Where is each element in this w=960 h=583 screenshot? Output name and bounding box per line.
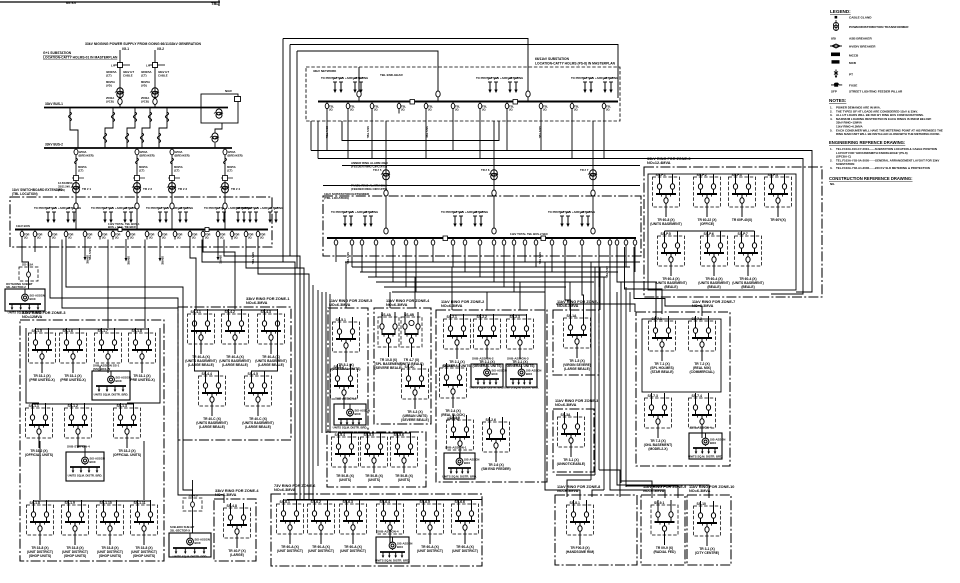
wire — [414, 277, 416, 308]
feeder drop — [414, 238, 418, 247]
legend item MCB — [832, 60, 857, 65]
svg-text:TR # 6: TR # 6 — [481, 168, 490, 172]
svg-text:POWER/DISTRIBUTION TRANSFORMER: POWER/DISTRIBUTION TRANSFORMER — [849, 25, 909, 29]
svg-text:66/11kV SUBSTATION: 66/11kV SUBSTATION — [535, 57, 570, 61]
wire — [62, 240, 178, 309]
svg-text:CABLE: CABLE — [158, 74, 168, 78]
svg-text:(LARGE BEALE): (LARGE BEALE) — [258, 363, 284, 367]
RMU cell SS-1.11 — [131, 500, 158, 558]
feeder drop — [334, 238, 338, 247]
svg-text:SS-4.5: SS-4.5 — [248, 372, 258, 376]
feeder drop — [539, 102, 548, 114]
substation box SUB-ASSIGN-4 — [375, 530, 412, 564]
svg-text:(LARGE BEALE): (LARGE BEALE) — [245, 425, 271, 429]
RMU cell SS-5.4 — [332, 432, 359, 482]
svg-text:(FEEDER RING CIRCUITS): (FEEDER RING CIRCUITS) — [351, 187, 387, 191]
66kV incoming line — [0, 0, 220, 6]
wire — [506, 114, 508, 151]
feeder drop — [624, 238, 628, 247]
svg-text:11kV TOTAL TBL BUS-2 SEC: 11kV TOTAL TBL BUS-2 SEC — [510, 232, 548, 236]
svg-text:TBL: TBL — [211, 1, 219, 6]
zone-3R inner ring box — [648, 174, 796, 290]
feeder drop — [580, 238, 584, 247]
feeder drop — [492, 238, 496, 247]
RMU cell SS-2.3 — [505, 314, 534, 368]
wire — [564, 247, 566, 277]
RMU cell SS-4B — [399, 312, 423, 366]
wire — [297, 51, 438, 90]
wire — [318, 159, 803, 295]
feeder drop — [216, 230, 225, 240]
svg-text:1250A: 1250A — [79, 150, 87, 154]
svg-text:SS-1.1: SS-1.1 — [29, 404, 39, 408]
svg-text:SS-5.1: SS-5.1 — [336, 318, 346, 322]
ring cluster 11kV RING FOR ZONE-8 — [555, 485, 637, 565]
RMU cell SS-2.5 — [447, 415, 474, 460]
wire — [519, 282, 521, 310]
svg-text:800/5A: 800/5A — [139, 165, 148, 169]
wire — [144, 240, 146, 329]
wire — [556, 474, 595, 476]
svg-text:SS-1.9: SS-1.9 — [65, 501, 75, 505]
svg-text:o/o: o/o — [831, 37, 836, 41]
svg-text:33kV TBL: 33kV TBL — [346, 252, 350, 265]
svg-text:(LARGE): (LARGE) — [230, 553, 244, 557]
feeder drop — [325, 102, 334, 114]
svg-text:(X): (X) — [374, 108, 378, 112]
wire — [452, 247, 454, 267]
RMU cell SS-2.6 — [481, 417, 510, 471]
wire — [252, 310, 278, 376]
wire — [317, 290, 319, 466]
svg-text:NO=6.3MVA: NO=6.3MVA — [386, 303, 408, 307]
wire — [335, 247, 337, 262]
svg-text:UNITS SQ.M. DISTR. BRD.: UNITS SQ.M. DISTR. BRD. — [504, 386, 539, 390]
wire — [107, 240, 109, 329]
wire — [582, 247, 584, 313]
legend item CABLE GLAND — [835, 16, 873, 20]
legend item PT — [834, 70, 853, 79]
feeder drop — [633, 238, 637, 247]
svg-text:3.: 3. — [830, 166, 833, 170]
ring cluster 11kV RING FOR ZONE-7 — [636, 300, 735, 466]
transformer — [132, 183, 141, 193]
svg-text:(X): (X) — [102, 236, 106, 240]
svg-text:(SHOP UNITS): (SHOP UNITS) — [29, 554, 51, 558]
earthing transformer 2 — [215, 123, 222, 148]
wire — [425, 114, 427, 159]
svg-text:(SEVERE BEALE): (SEVERE BEALE) — [401, 418, 429, 422]
svg-text:(X): (X) — [52, 236, 56, 240]
incomer breaker — [75, 196, 77, 229]
svg-text:(BEALE): (BEALE) — [707, 285, 720, 289]
wire — [603, 114, 605, 159]
substation box — [5, 289, 45, 315]
svg-text:SS-3A: SS-3A — [561, 413, 572, 417]
RMU cell SS-1.10 — [97, 500, 124, 558]
svg-text:33kV TBL: 33kV TBL — [538, 252, 542, 265]
svg-text:SUB-STATION-4: SUB-STATION-4 — [67, 445, 90, 449]
svg-text:(HANDSOME RIM): (HANDSOME RIM) — [566, 550, 594, 554]
transformer feeder TR#2 — [133, 148, 155, 196]
feeder drop — [173, 230, 182, 240]
RMU cell SS-1A — [563, 313, 591, 371]
wire — [503, 247, 505, 287]
wire — [99, 366, 101, 371]
svg-text:66 kV: 66 kV — [66, 0, 77, 5]
wire — [452, 114, 454, 151]
svg-text:SS-4B: SS-4B — [404, 313, 415, 317]
svg-text:UNITS SQ.M. DISTR. BRD.: UNITS SQ.M. DISTR. BRD. — [470, 386, 505, 390]
svg-text:SS-5.5: SS-5.5 — [364, 433, 374, 437]
svg-text:TR # 3: TR # 3 — [178, 187, 187, 191]
wire — [310, 121, 312, 151]
feeder drop — [608, 238, 612, 247]
RMU cell SS-1.3 — [113, 403, 141, 457]
wire — [389, 292, 391, 308]
transformer — [489, 170, 498, 180]
wire — [405, 247, 407, 287]
svg-text:BOX: BOX — [526, 372, 532, 376]
svg-text:BOX: BOX — [397, 545, 403, 549]
svg-text:(X): (X) — [205, 236, 209, 240]
feeder drop — [431, 238, 435, 247]
svg-text:UNITS SQ.M. DISTR. BRD.: UNITS SQ.M. DISTR. BRD. — [333, 426, 368, 430]
svg-text:11kV BUS: 11kV BUS — [16, 224, 30, 228]
wire — [616, 247, 618, 262]
substation box SUB-ASSIGN-4 — [688, 426, 725, 460]
RMU cell SS-6.6 — [452, 499, 479, 553]
svg-text:33L-SECTOR-X: 33L-SECTOR-X — [170, 529, 190, 533]
svg-text:PT: PT — [849, 73, 853, 77]
wire — [345, 262, 347, 308]
wire — [34, 240, 36, 253]
RMU cell SS-2.1 — [442, 314, 471, 368]
wire — [66, 240, 193, 499]
feeder drop — [451, 102, 460, 114]
svg-text:LA: LA — [111, 64, 115, 68]
outgoing SS-1.5 kiosk — [6, 263, 38, 290]
svg-text:(LARGE BEALE): (LARGE BEALE) — [199, 425, 225, 429]
ring wire — [34, 500, 151, 502]
svg-text:(SM END FEEDER): (SM END FEEDER) — [481, 467, 510, 471]
wire — [634, 247, 702, 316]
svg-text:SS-2.1: SS-2.1 — [447, 315, 457, 319]
generator incomer I/G-1 — [106, 47, 134, 107]
svg-text:5.: 5. — [830, 128, 833, 132]
svg-text:(PRE UNITED-X): (PRE UNITED-X) — [60, 378, 85, 382]
svg-text:(X): (X) — [130, 236, 134, 240]
svg-text:SUB-ASSIGN-4: SUB-ASSIGN-4 — [690, 426, 712, 430]
svg-text:(BEALE): (BEALE) — [664, 285, 677, 289]
svg-text:SS-P.6: SS-P.6 — [704, 232, 714, 236]
svg-text:BOX: BOX — [355, 412, 361, 416]
RMU cell SS-4.5 — [242, 371, 274, 429]
feeder drop — [374, 238, 378, 247]
transformer feeder TR#3 — [168, 148, 190, 196]
wire — [625, 247, 663, 314]
svg-text:BOX: BOX — [90, 460, 96, 464]
wire — [329, 294, 331, 433]
svg-text:SS-6.4: SS-6.4 — [380, 500, 390, 504]
RMU cell SS-7.3 — [644, 393, 673, 451]
svg-text:NO=12MVA: NO=12MVA — [22, 315, 43, 319]
svg-text:(UNIT DISTRICT): (UNIT DISTRICT) — [308, 549, 334, 553]
wire — [371, 114, 373, 159]
feeder drop — [350, 238, 354, 247]
svg-text:1250A: 1250A — [140, 150, 148, 154]
svg-text:SS-1.2: SS-1.2 — [68, 404, 78, 408]
network transformer TX2 — [481, 121, 494, 231]
wire — [325, 292, 327, 433]
transformer — [71, 183, 80, 193]
svg-text:(SHOP UNITS): (SHOP UNITS) — [99, 554, 121, 558]
protection arrows — [236, 206, 283, 223]
RMU cell SS-6.5 — [417, 499, 444, 553]
kiosk SS-4 — [170, 480, 202, 533]
wire — [351, 247, 353, 267]
svg-text:BOX: BOX — [492, 372, 498, 376]
svg-text:SS-2.4: SS-2.4 — [443, 364, 453, 368]
svg-text:(MODEL2-X): (MODEL2-X) — [648, 447, 667, 451]
svg-text:I/G-1: I/G-1 — [122, 47, 129, 51]
wire — [569, 282, 571, 310]
svg-text:33kV TBL: 33kV TBL — [366, 126, 370, 139]
svg-text:NO=6.3MVA: NO=6.3MVA — [329, 303, 351, 307]
feeder drop — [397, 102, 406, 114]
svg-text:SS-5.2: SS-5.2 — [334, 365, 344, 369]
svg-text:SUB-ASSIGN-5: SUB-ASSIGN-5 — [335, 397, 357, 401]
wire — [625, 247, 627, 267]
svg-text:(LARGE BEALE): (LARGE BEALE) — [222, 363, 248, 367]
svg-text:SS-4.0: SS-4.0 — [188, 494, 198, 498]
svg-text:SS-1.8: SS-1.8 — [132, 329, 142, 333]
legend item POWER/DISTRIBUTION TRANSFORMER — [833, 20, 909, 31]
feeder drop — [602, 102, 611, 114]
svg-text:LEGEND:: LEGEND: — [830, 9, 851, 14]
svg-text:BOX: BOX — [710, 441, 716, 445]
network transformer TX3 — [580, 121, 593, 231]
svg-text:1250A: 1250A — [175, 150, 183, 154]
wire — [78, 446, 85, 452]
svg-text:SS-10: SS-10 — [697, 502, 707, 506]
svg-text:(UNITS BASEMENT): (UNITS BASEMENT) — [650, 222, 682, 226]
svg-text:SUB-ASSIGN-3: SUB-ASSIGN-3 — [507, 357, 529, 361]
svg-text:SPARE: SPARE — [219, 255, 223, 264]
RMU cell SS-4.1 — [185, 309, 217, 367]
svg-text:(CT): (CT) — [106, 74, 112, 78]
wire — [479, 247, 481, 277]
incomer breaker — [136, 196, 138, 229]
svg-text:33kV TBL: 33kV TBL — [538, 126, 542, 139]
11kV distribution bus — [327, 237, 636, 239]
feeder drop — [158, 230, 167, 240]
svg-text:SS-1.6: SS-1.6 — [63, 329, 73, 333]
wire — [551, 247, 553, 272]
wire — [258, 240, 309, 500]
wire — [384, 286, 566, 288]
RMU cell SS-9.1 — [651, 500, 678, 554]
ring wire — [339, 432, 411, 434]
transformer — [150, 88, 159, 98]
svg-text:G+1 SUBSTATION: G+1 SUBSTATION — [43, 51, 72, 55]
svg-text:(X): (X) — [177, 236, 181, 240]
RMU cell SS-6.2 — [308, 499, 335, 553]
svg-text:SS-7.2: SS-7.2 — [692, 317, 702, 321]
feeder drop — [478, 238, 482, 247]
svg-text:(X): (X) — [37, 236, 41, 240]
svg-text:SS-4.1: SS-4.1 — [191, 310, 201, 314]
svg-text:(TBL LOCATION): (TBL LOCATION) — [324, 196, 349, 200]
bus incomer breaker — [527, 90, 529, 102]
wire — [345, 261, 640, 263]
svg-text:SS-4.3: SS-4.3 — [261, 310, 271, 314]
substation box SUB-ASSIGN SS-1 — [92, 364, 131, 401]
RMU cell SS-1.8 — [129, 328, 156, 382]
svg-text:2.: 2. — [830, 158, 833, 162]
RMU cell SS-5.5 — [361, 432, 388, 482]
substation box SUB-ASSIGN-2 — [470, 357, 507, 390]
RMU cell SS-4.8 — [224, 503, 251, 557]
wire — [621, 481, 652, 498]
legend item ASB BREAKER — [831, 37, 872, 41]
svg-text:NO=6.3MVA: NO=6.3MVA — [555, 403, 577, 407]
svg-text:NO=6.3MVA: NO=6.3MVA — [689, 489, 711, 493]
wire — [321, 292, 323, 433]
svg-text:(VD): (VD) — [106, 84, 112, 88]
feeder drop — [391, 238, 395, 247]
feeder drop — [48, 230, 57, 240]
legend item MCCB — [831, 53, 859, 58]
wire — [358, 67, 360, 90]
svg-text:UNITS SQ.M. DISTR. BRD.: UNITS SQ.M. DISTR. BRD. — [688, 455, 723, 459]
svg-text:SS-5.4: SS-5.4 — [335, 433, 345, 437]
transformer — [167, 183, 176, 193]
wire — [392, 291, 545, 293]
wire — [609, 247, 611, 292]
svg-text:SS-6.5: SS-6.5 — [420, 500, 430, 504]
svg-text:(COMMERCIAL): (COMMERCIAL) — [690, 370, 715, 374]
wire — [312, 285, 314, 499]
svg-text:NOTES:: NOTES: — [829, 98, 847, 103]
svg-text:(X): (X) — [329, 108, 333, 112]
svg-text:33kV BUS-1: 33kV BUS-1 — [45, 102, 63, 106]
feeder drop — [478, 102, 487, 114]
wire — [581, 247, 583, 282]
wire — [283, 39, 528, 91]
RMU cell SS-P.1 — [650, 173, 682, 226]
svg-text:UNITS SQ.M. DISTR. BRD.: UNITS SQ.M. DISTR. BRD. — [68, 474, 103, 478]
legend item HV/DIV BREAKER — [830, 44, 876, 49]
svg-text:(RADIAL FED): (RADIAL FED) — [653, 550, 675, 554]
svg-text:(X): (X) — [260, 236, 264, 240]
wire — [617, 247, 656, 319]
33kV BUS-1 — [44, 102, 228, 108]
svg-text:+ARR METERING: +ARR METERING — [260, 206, 283, 210]
feeder drop — [502, 238, 506, 247]
svg-text:(X): (X) — [574, 108, 578, 112]
network transformer TX1 — [373, 121, 386, 231]
RMU cell SS-6.3 — [340, 499, 367, 553]
wire — [347, 114, 349, 159]
svg-text:SS-1.8: SS-1.8 — [30, 501, 40, 505]
svg-text:ENGINEERING REFRENCE DRAWING: ENGINEERING REFRENCE DRAWING: — [829, 140, 905, 145]
zone-7 inner ring box — [642, 319, 721, 392]
wire — [540, 114, 542, 151]
protection arrows — [34, 206, 81, 223]
svg-text:(X): (X) — [234, 236, 238, 240]
ring wire — [451, 314, 527, 316]
spare feeder stub — [217, 239, 223, 264]
svg-text:(UNITS): (UNITS) — [339, 478, 351, 482]
svg-text:SS-P.1: SS-P.1 — [656, 173, 666, 177]
spare feeder stub — [84, 239, 90, 264]
svg-text:(X): (X) — [509, 108, 513, 112]
svg-text:CONSTRUCTION REFERENCE DRAWI: CONSTRUCTION REFERENCE DRAWING: — [829, 176, 913, 181]
svg-text:(SHOP UNITS): (SHOP UNITS) — [64, 554, 86, 558]
RMU cell SS-4.3 — [255, 309, 287, 367]
wire — [626, 486, 678, 498]
feeder drop — [563, 238, 567, 247]
protection arrows — [146, 206, 193, 223]
svg-text:TR 60P-40(X): TR 60P-40(X) — [732, 218, 752, 222]
wire — [190, 240, 196, 311]
wire — [342, 121, 499, 141]
RMU cell SS-1.2 — [65, 403, 92, 448]
wire — [451, 267, 453, 310]
svg-text:HV/DIV BREAKER: HV/DIV BREAKER — [849, 45, 876, 49]
wire — [634, 247, 636, 272]
svg-text:+ARR METERING: +ARR METERING — [595, 76, 618, 80]
RMU cell SS-6.4 — [377, 499, 404, 544]
svg-text:(CT): (CT) — [227, 169, 232, 173]
wire — [317, 121, 319, 159]
wire — [203, 240, 235, 310]
RMU cell SS-2.4 — [440, 363, 467, 421]
svg-text:(SHOP UNITS): (SHOP UNITS) — [133, 554, 155, 558]
wire — [524, 247, 526, 262]
RMU cell SS-1.9 — [62, 500, 89, 558]
feeder drop — [523, 238, 527, 247]
wire — [195, 310, 219, 376]
wire — [594, 267, 596, 475]
feeder drop — [188, 230, 197, 240]
wire — [360, 271, 618, 273]
svg-text:(X): (X) — [248, 236, 252, 240]
RMU cell SS-1.7 — [95, 328, 122, 373]
svg-text:SFP: SFP — [831, 90, 837, 94]
wire — [375, 247, 377, 277]
wire — [39, 441, 41, 500]
ring cluster 33kV RING FOR ZONE-3 — [644, 157, 822, 297]
svg-text:(X): (X) — [428, 108, 432, 112]
protection arrows — [571, 76, 618, 93]
svg-text:SS-7.4: SS-7.4 — [692, 394, 702, 398]
wire — [143, 441, 145, 500]
generator incomer I/G-2 — [141, 47, 169, 107]
svg-text:(BREAKER): (BREAKER) — [79, 154, 94, 158]
transformer — [115, 88, 124, 98]
earthing transformer NGR box — [201, 89, 241, 123]
feeder drop — [20, 230, 29, 240]
wire — [535, 247, 537, 267]
svg-text:SPARE: SPARE — [127, 256, 131, 265]
svg-text:FUSE: FUSE — [849, 84, 857, 88]
RMU cell SS-8.1 — [566, 500, 594, 554]
RMU cell SS-P.6 — [698, 231, 730, 289]
feeder drop — [505, 102, 514, 114]
RMU cell SS-1.6 — [60, 328, 87, 382]
